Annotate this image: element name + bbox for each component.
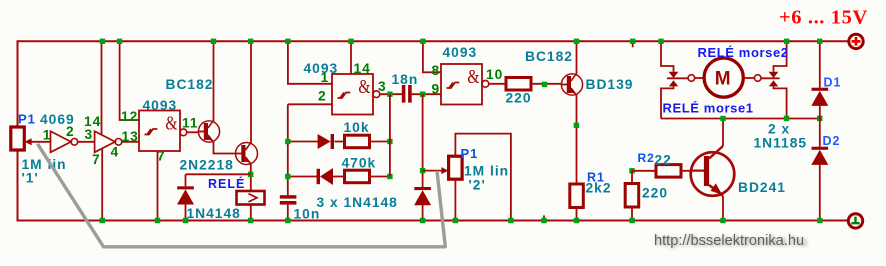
svg-text:22: 22	[655, 153, 672, 168]
wire R1 to bottom rail	[576, 208, 578, 221]
junction bottom rail D2 cathode	[817, 218, 822, 223]
wire D1 top lead	[819, 41, 821, 87]
junction 10k row right	[387, 139, 392, 144]
relay contact morse1 terminal circle	[688, 75, 695, 82]
svg-text:1: 1	[321, 70, 330, 85]
junction top rail Q1 collector	[211, 39, 216, 44]
wire Q1 emitter to Q2 base	[214, 141, 236, 153]
wiper arrow P1 '1'	[25, 138, 32, 145]
wire 10k row right	[370, 141, 390, 143]
svg-text:M: M	[715, 69, 731, 90]
junction bottom rail pot2 bottom	[453, 218, 458, 223]
wire left rail vertical	[17, 40, 19, 127]
junction bottom rail flyback diode	[183, 218, 188, 223]
junction top rail 4069 pin14	[100, 39, 105, 44]
resistor 220 pulldown	[625, 184, 639, 208]
diode D3 1N4148 flyback	[177, 186, 194, 204]
junction bottom rail Q4 emitter	[720, 218, 725, 223]
svg-text:18n: 18n	[392, 72, 419, 87]
wire diode top lead	[185, 174, 187, 186]
wire Q3 emitter down	[576, 94, 578, 184]
junction top rail gate2 pin1	[285, 39, 290, 44]
wire top supply rail	[18, 40, 849, 42]
wire 220 pulldown to bottom rail	[631, 207, 633, 221]
junction pin9 node	[420, 92, 425, 97]
wire 4069 pin14 to top rail	[101, 41, 103, 135]
potentiometer P1 '2'	[449, 156, 463, 179]
junction top rail D1 anode	[817, 39, 822, 44]
wire 470k row right	[370, 176, 390, 178]
inverter U1B 4069	[95, 131, 122, 152]
relay contact morse2 upper arrow	[769, 72, 779, 78]
wiper arrow P1 '2'	[441, 167, 448, 174]
svg-text:2: 2	[66, 124, 75, 139]
diode D4 1N4148 (10k row)	[318, 134, 334, 149]
junction pot2 wiper node	[420, 168, 425, 173]
wire 220 pulldown top lead	[631, 171, 633, 184]
wire pot2 node to wiper arrow	[423, 170, 443, 172]
resistor 470k	[345, 170, 370, 183]
terminal positive supply	[849, 34, 863, 48]
svg-text:P1: P1	[18, 112, 36, 127]
wire gate2 pin14 to top rail	[350, 41, 352, 74]
svg-text:1: 1	[43, 128, 52, 143]
svg-text:10: 10	[486, 67, 503, 82]
wire C2 to bottom rail	[287, 205, 289, 221]
resistor R2 22	[656, 165, 681, 178]
svg-text:'1': '1'	[22, 171, 39, 186]
wire Q4 collector up	[722, 119, 724, 147]
svg-text:RELÉ morse1: RELÉ morse1	[663, 101, 754, 116]
svg-text:7: 7	[92, 152, 101, 167]
svg-text:D2: D2	[823, 134, 841, 148]
wire Q4 emitter to bottom rail	[722, 196, 724, 221]
junction morse2 lower node	[784, 116, 789, 121]
diode D2 1N1185	[811, 147, 828, 165]
wire motor left lead	[695, 77, 704, 79]
nand gate U2C 4093 pins 8/9/10	[441, 64, 489, 105]
wire morse1 contact upper lead	[661, 41, 674, 72]
junction bottom rail relay coil	[248, 218, 253, 223]
wire 10k diode to resistor	[334, 141, 344, 143]
nand gate U2B 4093 pins 1/2/3	[332, 74, 380, 115]
junction top rail morse1 feed	[658, 39, 663, 44]
terminal ground	[848, 214, 862, 228]
svg-text:220: 220	[642, 186, 668, 201]
wire gate2 output to C1	[380, 93, 402, 95]
svg-text:2 x: 2 x	[768, 122, 790, 137]
wire D2 to bottom rail	[819, 164, 821, 221]
junction 470k row left	[285, 174, 290, 179]
junction bottom rail D6 cathode	[420, 218, 425, 223]
relay contact morse2 blade	[761, 77, 780, 79]
svg-text:&: &	[165, 112, 177, 134]
wire inverter B out to gate pin13	[122, 141, 139, 143]
junction bottom rail 220 pulldown	[629, 218, 634, 223]
junction bottom rail pot2 loop	[508, 218, 513, 223]
junction Q3 emitter node	[574, 123, 579, 128]
wire Q1 collector to top rail	[213, 41, 215, 121]
wire pot2 top loop	[455, 134, 511, 221]
svg-text:+6 ... 15V: +6 ... 15V	[779, 7, 868, 29]
wire gray keyer link (pot1 wiper to pot2 wiper)	[38, 144, 446, 247]
svg-text:10n: 10n	[294, 207, 321, 222]
resistor 220 (base Q3)	[506, 78, 531, 91]
junction oscillator output node	[387, 92, 392, 97]
wire gate1 output to Q1 base	[187, 131, 198, 133]
junction top rail gate3 pin8	[420, 39, 425, 44]
relay contact morse2 lower arrow	[769, 80, 778, 86]
wire feedback right vertical	[389, 94, 391, 176]
junction bottom rail C2 10n	[285, 218, 290, 223]
junction top rail stub 632	[630, 39, 635, 44]
junction top rail Q2 collector	[248, 39, 253, 44]
svg-text:RELÉ morse2: RELÉ morse2	[698, 45, 789, 60]
wire gate3 output to R 220	[489, 83, 506, 85]
wire C1 to gate3 pin9	[412, 93, 441, 95]
junction top rail gate1 pin12	[117, 39, 122, 44]
wire 10k row left	[288, 141, 318, 143]
wire gate2 pin2 node	[288, 103, 332, 105]
wire Q2 collector to top rail	[250, 41, 252, 143]
svg-text:2: 2	[318, 89, 327, 104]
wire left rail vertical lower	[17, 150, 19, 222]
junction 10k row left	[285, 139, 290, 144]
wire R2 node to 22	[632, 170, 656, 172]
junction 470k row right	[387, 174, 392, 179]
junction bottom rail stub 544	[541, 218, 546, 223]
resistor R1 2k2	[570, 184, 584, 208]
svg-text:http://bsselektronika.hu: http://bsselektronika.hu	[654, 233, 804, 249]
node dot after 220	[542, 82, 547, 87]
wire 470k row left	[288, 176, 317, 178]
svg-text:2N2218: 2N2218	[180, 158, 234, 173]
junction D1-D2 midpoint	[817, 116, 822, 121]
svg-text:BD241: BD241	[738, 180, 786, 195]
wire bottom ground rail	[18, 220, 849, 222]
motor M	[704, 58, 743, 97]
relay contact morse1 blade	[667, 77, 688, 79]
wire gate2 pin1 tied to rail	[288, 41, 332, 84]
diode D1 1N1185	[811, 88, 828, 106]
nand gate U2A 4093 pins 12/13/11	[139, 111, 187, 152]
svg-text:4: 4	[111, 145, 120, 160]
wire flyback node to diode	[186, 173, 251, 175]
svg-text:BC182: BC182	[166, 77, 214, 92]
transistor Q1 BC182	[198, 121, 219, 143]
svg-text:4093: 4093	[143, 98, 178, 113]
wire motor lower row	[661, 118, 820, 120]
wire inverter A out to inverter B in	[78, 141, 95, 143]
svg-text:13: 13	[122, 129, 139, 144]
relay contact morse2 terminal circle	[754, 75, 761, 82]
transistor Q2 2N2218	[236, 143, 258, 165]
wire R220 to Q3 base	[531, 83, 561, 85]
potentiometer P1 '1'	[11, 127, 24, 150]
junction Q4 collector node	[720, 116, 725, 121]
svg-text:&: &	[467, 65, 479, 87]
svg-text:BD139: BD139	[586, 77, 634, 92]
wire D6 to bottom rail	[422, 204, 424, 220]
svg-text:8: 8	[432, 63, 441, 78]
svg-text:2k2: 2k2	[586, 181, 612, 196]
wire pin9 node down to pot2 node	[422, 94, 424, 187]
transistor Q4 BD241	[691, 146, 735, 196]
diode D5 1N4148 (470k row)	[317, 168, 333, 185]
svg-text:4093: 4093	[443, 45, 478, 60]
svg-text:220: 220	[506, 91, 532, 106]
wire Q2 emitter to relay coil	[250, 164, 252, 191]
relay contact morse1 lower arrow	[669, 80, 678, 86]
svg-text:470k: 470k	[342, 156, 377, 171]
junction Q2 emitter / flyback node	[248, 172, 253, 177]
wire 470k diode to resistor	[333, 176, 345, 178]
wire diode bottom lead	[185, 204, 187, 221]
wire D1 to D2	[819, 105, 821, 147]
wire pot2 bottom lead	[454, 179, 456, 220]
junction bottom rail R1 bottom	[574, 218, 579, 223]
relay coil RELE K1	[237, 191, 265, 205]
wire morse2 contact upper lead	[774, 41, 787, 72]
svg-text:10k: 10k	[344, 120, 370, 135]
junction top rail morse2 feed	[784, 39, 789, 44]
svg-text:P1: P1	[461, 146, 479, 161]
svg-text:14: 14	[354, 61, 371, 76]
capacitor C2 10n	[280, 195, 297, 204]
wire 4069 pin7 to bottom rail	[101, 148, 103, 220]
wire morse1 contact lower lead	[661, 86, 674, 118]
relay contact morse1 upper arrow	[669, 72, 679, 78]
svg-text:&: &	[358, 75, 370, 97]
wire 22 to Q4 base	[681, 170, 704, 172]
wire feedback left vertical	[287, 104, 289, 195]
wire P1 '1' wiper to inverter input	[31, 141, 51, 143]
wire Q3 collector to top rail	[576, 41, 578, 74]
svg-text:'2': '2'	[469, 178, 486, 193]
transistor Q3 BC182/BD139	[561, 74, 582, 96]
svg-text:3 x 1N4148: 3 x 1N4148	[317, 195, 398, 210]
svg-text:1N4148: 1N4148	[187, 206, 241, 221]
capacitor C1 18n	[402, 85, 412, 103]
junction top rail Q3 collector	[574, 39, 579, 44]
svg-text:11: 11	[182, 116, 199, 131]
wire gate3 pin8 from top rail	[423, 41, 441, 72]
svg-text:12: 12	[121, 109, 138, 124]
svg-text:BC182: BC182	[525, 49, 573, 64]
stub invisible wire node 544	[543, 215, 545, 219]
svg-text:9: 9	[432, 82, 441, 97]
inverter U1A 4069	[51, 131, 78, 152]
svg-text:R2: R2	[638, 151, 655, 165]
wire morse2 contact lower lead	[774, 86, 787, 118]
junction top rail gate2 pin14	[348, 39, 353, 44]
junction R2 node	[629, 168, 634, 173]
resistor 10k	[345, 135, 370, 148]
wire motor right lead	[744, 77, 755, 79]
junction bottom rail gate1 pin7	[155, 218, 160, 223]
svg-text:1M lin: 1M lin	[464, 164, 509, 179]
wire gate1 pin7 to bottom rail	[157, 151, 159, 221]
svg-text:3: 3	[85, 127, 94, 142]
svg-text:D1: D1	[824, 76, 842, 90]
diode D6 1N4148 (pot2)	[414, 187, 431, 205]
svg-text:14: 14	[84, 114, 101, 129]
wire relay coil to bottom rail	[250, 205, 252, 221]
svg-text:1N1185: 1N1185	[754, 136, 808, 151]
svg-text:3: 3	[378, 79, 387, 94]
wire gate1 pin12 from top rail	[120, 41, 139, 120]
svg-text:RELÉ: RELÉ	[208, 176, 245, 191]
watermark url text	[654, 233, 807, 250]
junction bottom rail 4069 pin7	[100, 218, 105, 223]
stub invisible wire node 632 top	[632, 43, 634, 48]
